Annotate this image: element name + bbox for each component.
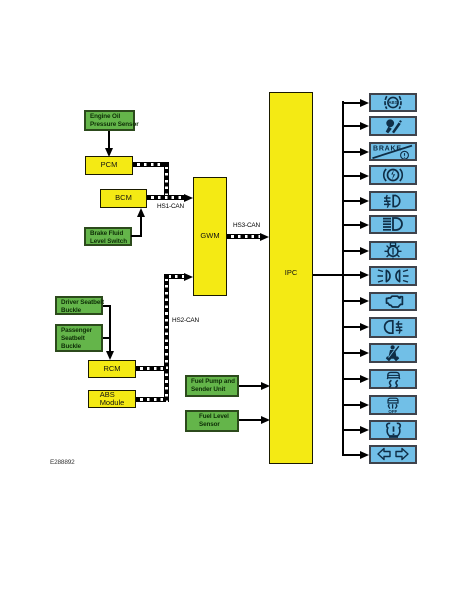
label E288892 — [50, 459, 75, 466]
svg-text:BRAKE: BRAKE — [373, 146, 401, 153]
module PCM — [85, 156, 133, 175]
module GWM — [193, 177, 227, 296]
wire: IPC to indicator bus — [313, 274, 342, 276]
module ABS — [88, 390, 136, 408]
label HS3-CAN — [233, 222, 260, 229]
label HS1-CAN — [157, 203, 184, 210]
HS1-CAN bus from PCM — [133, 162, 169, 167]
wire: brake fluid switch to BCM — [131, 235, 142, 237]
Engine Oil Pressure Sensor — [84, 110, 135, 131]
svg-text:ABS: ABS — [388, 100, 397, 105]
indicator ABS warning — [342, 102, 362, 104]
svg-text:OFF: OFF — [388, 409, 397, 414]
wire: oil sensor to PCM — [108, 131, 110, 149]
module RCM — [88, 360, 136, 378]
Fuel Level Sensor — [185, 410, 239, 432]
indicator feed vertical — [342, 101, 344, 455]
module BCM — [100, 189, 147, 208]
indicator front fog — [342, 200, 362, 202]
indicator position lamps — [342, 274, 362, 276]
HS2-CAN bus — [164, 274, 169, 402]
wire: fuel pump to IPC — [239, 385, 262, 387]
indicator traction control — [342, 378, 362, 380]
Brake Fluid Level Switch — [84, 227, 132, 246]
indicator airbag — [342, 125, 362, 127]
Driver Seatbelt Buckle — [55, 296, 103, 315]
indicator seatbelt — [342, 352, 362, 354]
wire: buckles to RCM — [103, 305, 111, 307]
indicator rear fog — [342, 326, 362, 328]
indicator traction control off — [342, 404, 362, 406]
wire: fuel level to IPC — [239, 419, 262, 421]
indicator TPMS — [342, 429, 362, 431]
Passenger Seatbelt Buckle — [55, 324, 103, 352]
indicator high beam — [342, 224, 362, 226]
indicator bulb failure — [342, 250, 362, 252]
label HS2-CAN — [172, 317, 199, 324]
indicator turn signals — [342, 454, 362, 456]
module IPC — [269, 92, 313, 464]
indicator check engine — [342, 300, 362, 302]
indicator brake electric — [342, 175, 362, 177]
indicator BRAKE fluid — [342, 151, 362, 153]
HS3-CAN bus GWM to IPC — [227, 234, 261, 239]
Fuel Pump and Sender Unit — [185, 375, 239, 397]
